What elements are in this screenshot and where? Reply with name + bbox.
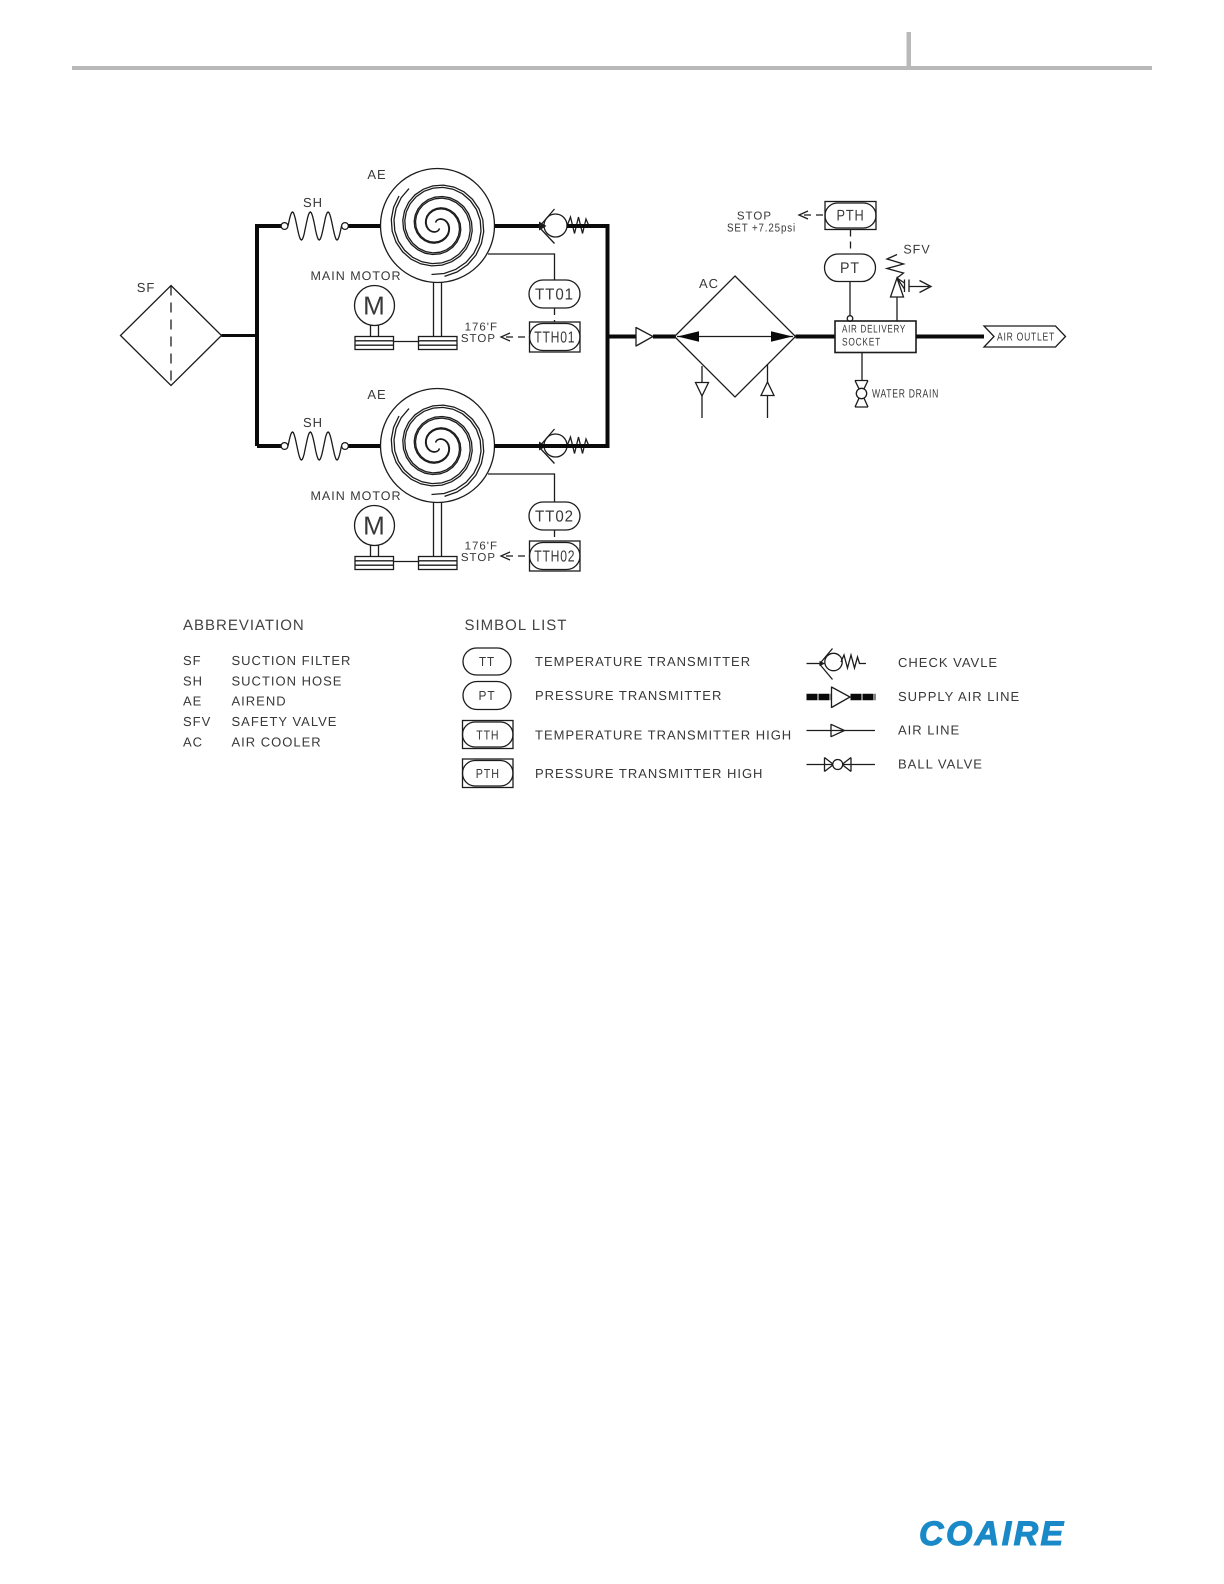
pressure transmitter PT xyxy=(825,254,876,282)
svg-text:COAIRE: COAIRE xyxy=(919,1515,1066,1553)
AC internal flow line xyxy=(677,336,793,338)
svg-text:AC: AC xyxy=(699,276,719,291)
svg-text:PRESSURE TRANSMITTER: PRESSURE TRANSMITTER xyxy=(535,688,722,703)
legend ball valve symbol xyxy=(807,758,876,772)
AC flow arrow left xyxy=(678,331,700,342)
svg-text:AIR COOLER: AIR COOLER xyxy=(232,735,322,750)
left trunk supply wire xyxy=(257,226,260,446)
wire: check valve to right trunk xyxy=(567,224,610,228)
main motor M01 circle xyxy=(355,286,395,326)
svg-text:SF: SF xyxy=(137,280,156,295)
right trunk supply wire xyxy=(494,224,608,446)
wire: check valve to right trunk xyxy=(567,444,610,448)
wire: airend to check valve xyxy=(495,224,542,228)
suction hose SH01 xyxy=(281,212,348,240)
motor shaft xyxy=(371,326,379,337)
svg-text:SF: SF xyxy=(183,653,202,668)
check valve spring xyxy=(567,437,589,454)
svg-text:CHECK VAVLE: CHECK VAVLE xyxy=(898,655,998,670)
svg-text:TTH02: TTH02 xyxy=(534,549,575,566)
svg-text:TT01: TT01 xyxy=(535,287,574,304)
wire: socket to water drain xyxy=(861,353,863,381)
dashed signal wire TT02 to TTH02 xyxy=(554,530,556,541)
legend pressure transmitter high symbol xyxy=(463,759,514,788)
svg-text:SOCKET: SOCKET xyxy=(842,337,881,349)
wire: right trunk tee to air line triangle xyxy=(608,335,637,339)
dashed signal wire TT01 to TTH01 xyxy=(554,308,556,322)
svg-text:AIR OUTLET: AIR OUTLET xyxy=(997,332,1055,344)
wire: airend to temperature transmitter TT02 xyxy=(488,474,555,502)
air cooler AC diamond xyxy=(675,276,796,397)
wire: airend to check valve xyxy=(495,444,542,448)
temperature transmitter high TTH01 xyxy=(530,322,581,352)
scroll shaft xyxy=(434,282,442,337)
svg-text:PT: PT xyxy=(840,260,860,277)
safety valve discharge bars xyxy=(905,280,910,293)
svg-text:AC: AC xyxy=(183,735,203,750)
wire: supply line from left trunk to suction hose SH02 xyxy=(257,444,281,448)
svg-text:SH: SH xyxy=(183,674,203,689)
legend temperature transmitter high symbol xyxy=(463,721,514,749)
AC cooling air in line xyxy=(767,364,769,418)
AC cooling air in triangle xyxy=(761,382,774,396)
svg-text:TTH: TTH xyxy=(476,728,499,743)
air delivery socket box xyxy=(835,321,916,353)
svg-text:STOP: STOP xyxy=(461,552,496,564)
abbreviation rows xyxy=(183,653,351,750)
legend air line symbol xyxy=(807,724,876,737)
svg-text:PT: PT xyxy=(479,688,496,703)
motor base right xyxy=(419,337,458,350)
svg-text:SAFETY VALVE: SAFETY VALVE xyxy=(232,714,338,729)
wire: hose to airend AE01 xyxy=(349,224,382,228)
svg-text:SET +7.25psi: SET +7.25psi xyxy=(727,223,796,235)
svg-text:176'F: 176'F xyxy=(465,322,498,334)
svg-text:AE: AE xyxy=(367,387,386,402)
check valve CV01 xyxy=(539,209,567,244)
temperature transmitter TT01 xyxy=(529,280,580,308)
check valve spring xyxy=(567,217,589,234)
dashed arrow TTH02 to stop xyxy=(501,552,530,560)
page top rule xyxy=(72,66,1152,70)
svg-text:SFV: SFV xyxy=(903,243,930,257)
suction filter SF diamond xyxy=(121,286,222,386)
svg-text:SUCTION HOSE: SUCTION HOSE xyxy=(232,674,343,689)
wire: hose to airend AE02 xyxy=(349,444,382,448)
svg-text:AE: AE xyxy=(183,694,202,709)
wire: airend to temperature transmitter TT01 xyxy=(488,254,555,280)
AC flow arrow right xyxy=(771,331,793,342)
svg-text:TEMPERATURE TRANSMITTER: TEMPERATURE TRANSMITTER xyxy=(535,654,751,669)
suction filter SF center dashed line xyxy=(170,286,172,386)
svg-text:SIMBOL LIST: SIMBOL LIST xyxy=(465,617,568,634)
wire: supply line from left trunk to suction hose SH01 xyxy=(257,224,281,228)
legend temperature transmitter symbol xyxy=(463,648,511,675)
svg-text:M: M xyxy=(363,511,386,541)
base connecting rod xyxy=(394,561,419,563)
wire: AC to air delivery socket xyxy=(796,335,836,339)
wire: triangle to air cooler AC xyxy=(653,335,676,339)
motor base right xyxy=(419,557,458,570)
svg-text:WATER DRAIN: WATER DRAIN xyxy=(872,387,939,401)
safety valve SFV body triangle xyxy=(891,278,905,297)
page top tick mark xyxy=(907,32,912,66)
dashed arrow TTH01 to stop xyxy=(501,333,530,341)
legend check valve symbol xyxy=(807,649,867,680)
motor shaft xyxy=(371,546,379,557)
svg-text:SH: SH xyxy=(303,195,323,210)
svg-text:TT: TT xyxy=(479,654,495,669)
svg-text:MAIN MOTOR: MAIN MOTOR xyxy=(310,269,401,283)
svg-text:TEMPERATURE TRANSMITTER HIGH: TEMPERATURE TRANSMITTER HIGH xyxy=(535,728,792,743)
svg-text:SH: SH xyxy=(303,415,323,430)
svg-text:AIREND: AIREND xyxy=(232,694,287,709)
wire: socket to air outlet banner xyxy=(916,335,984,339)
airend AE02 (scroll) xyxy=(381,389,495,503)
air outlet banner xyxy=(984,326,1066,347)
suction hose SH02 xyxy=(281,432,348,460)
svg-text:PRESSURE TRANSMITTER HIGH: PRESSURE TRANSMITTER HIGH xyxy=(535,766,763,781)
PT tap circle xyxy=(847,316,853,322)
wire: PT to air delivery socket xyxy=(849,282,851,317)
safety valve discharge arrow xyxy=(909,281,931,293)
svg-text:SUCTION FILTER: SUCTION FILTER xyxy=(232,653,352,668)
svg-text:SFV: SFV xyxy=(183,714,211,729)
svg-text:MAIN MOTOR: MAIN MOTOR xyxy=(310,489,401,503)
svg-text:AE: AE xyxy=(367,167,386,182)
motor base left xyxy=(355,337,394,350)
airend AE01 (scroll) xyxy=(381,169,495,283)
svg-text:PTH: PTH xyxy=(837,208,865,225)
wire: safety valve to socket xyxy=(896,297,898,321)
dashed signal wire PTH to PT xyxy=(850,230,852,255)
svg-text:STOP: STOP xyxy=(461,333,496,345)
main motor M02 circle xyxy=(355,506,395,546)
dashed arrow PTH to stop xyxy=(799,211,825,219)
svg-text:TT02: TT02 xyxy=(535,509,574,526)
motor base left xyxy=(355,557,394,570)
temperature transmitter high TTH02 xyxy=(530,541,581,571)
air line triangle (flow direction) xyxy=(636,327,653,347)
svg-text:SUPPLY AIR LINE: SUPPLY AIR LINE xyxy=(898,689,1020,704)
wire: SF to left trunk xyxy=(222,334,260,337)
safety valve SFV spring xyxy=(887,255,904,279)
svg-text:176'F: 176'F xyxy=(465,541,498,553)
scroll shaft xyxy=(434,502,442,557)
water drain valve xyxy=(855,381,868,408)
base connecting rod xyxy=(394,341,419,343)
legend pressure transmitter symbol xyxy=(463,682,511,710)
svg-text:TTH01: TTH01 xyxy=(534,330,575,347)
svg-text:BALL VALVE: BALL VALVE xyxy=(898,757,983,772)
svg-text:M: M xyxy=(363,291,386,321)
legend supply air line symbol xyxy=(807,694,832,701)
temperature transmitter TT02 xyxy=(529,502,580,530)
svg-text:ABBREVIATION: ABBREVIATION xyxy=(183,617,305,634)
svg-text:AIR LINE: AIR LINE xyxy=(898,723,960,738)
AC cooling air out line xyxy=(701,366,703,418)
svg-text:PTH: PTH xyxy=(476,766,500,781)
svg-text:AIR DELIVERY: AIR DELIVERY xyxy=(842,324,906,336)
AC cooling air out triangle xyxy=(696,383,709,397)
svg-text:STOP: STOP xyxy=(737,211,772,223)
check valve CV02 xyxy=(539,429,567,464)
pressure transmitter high PTH xyxy=(825,202,876,230)
